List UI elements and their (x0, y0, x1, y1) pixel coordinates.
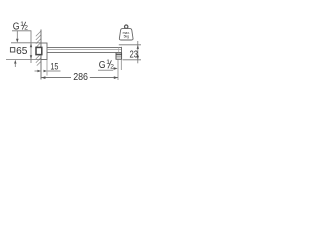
outlet nut (116, 53, 122, 59)
label G1/2 (top left) (13, 21, 28, 32)
inside arrowheads on dimension line x=31 (30, 43, 32, 47)
label G1/2 (bottom right) (99, 59, 114, 71)
svg-text:65: 65 (16, 46, 28, 57)
max-load weight icon (119, 25, 133, 40)
svg-text:G: G (99, 60, 106, 71)
label square 65 (10, 46, 27, 57)
lower outside arrow pointing up at bottom extension line (14, 60, 16, 64)
escutcheon plate (side view) (41, 43, 47, 60)
svg-text:286: 286 (73, 72, 88, 83)
shower arm tube (47, 46, 122, 48)
wall line / left extension line for 286 and 15 (40, 30, 42, 80)
dimension 23 (119, 44, 141, 46)
dimension 286 (41, 77, 71, 79)
underline of G1/2 and drop line (12, 31, 31, 63)
wall hatching (36, 31, 41, 66)
svg-text:5kg: 5kg (124, 35, 130, 39)
arm end cap (118, 47, 120, 52)
leader arrow from G1/2 down to plate-top extension line (16, 31, 18, 39)
G1/2 thread square behind wall (36, 47, 42, 54)
svg-text:15: 15 (50, 62, 58, 72)
svg-text:23: 23 (130, 49, 139, 60)
dimension 15 (46, 60, 48, 76)
square-65 dimension: top extension line (11, 42, 41, 44)
technical dimension drawing: wall-mounted shower arm, side view (0, 0, 150, 114)
square-65 dimension: bottom extension line (6, 59, 41, 61)
outlet nipple G1/2 down (117, 59, 119, 80)
